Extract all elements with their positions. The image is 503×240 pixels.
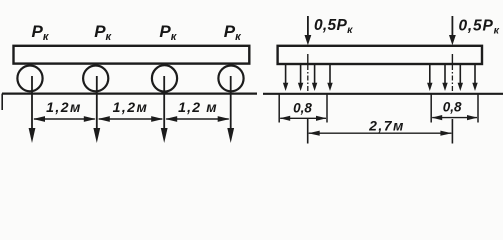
distributed load arrow d5	[429, 65, 431, 85]
svg-text:Pк: Pк	[94, 22, 112, 43]
dimension line 1,2m (first span)	[34, 118, 95, 120]
svg-text:Pк: Pк	[159, 22, 177, 43]
rail line (left)	[2, 92, 257, 94]
svg-text:0,8: 0,8	[443, 100, 462, 115]
distributed load arrow d7	[459, 65, 461, 85]
wheel load arrow A1	[31, 76, 33, 132]
ground line (right)	[263, 93, 503, 95]
svg-text:Pк: Pк	[32, 22, 50, 43]
distributed load arrow d4	[329, 65, 331, 85]
svg-text:0,8: 0,8	[293, 101, 312, 116]
centreline below beam (right group)	[451, 65, 453, 94]
wheel W1	[17, 66, 42, 92]
centre dash inside beam (right load)	[451, 54, 453, 64]
beam (right, with equivalent loads)	[278, 46, 482, 64]
wheel load arrow A3	[163, 76, 165, 132]
load arrow 0,5Pk (right)	[451, 16, 453, 37]
svg-text:1,2м: 1,2м	[113, 99, 149, 115]
extension line e4	[477, 95, 479, 123]
beam (left crane girder)	[14, 46, 250, 64]
extension line e1	[278, 95, 280, 123]
dimension line 2,7m	[309, 132, 452, 134]
svg-text:2,7м: 2,7м	[368, 118, 405, 134]
wheel load arrow A2	[96, 76, 98, 132]
dimension line 1,2m (second span)	[99, 118, 162, 120]
centre dash inside beam (left load)	[307, 54, 309, 64]
dimension line 0,8 (left)	[280, 117, 326, 119]
dimension line 1,2m (third span)	[166, 118, 229, 120]
wheel W3	[152, 65, 177, 91]
dimension line 0,8 (right)	[432, 117, 477, 119]
centreline extension f1	[307, 119, 309, 144]
svg-text:0,5Pк: 0,5Pк	[459, 18, 500, 37]
distributed load arrow d8	[474, 65, 476, 85]
distributed load arrow d1	[285, 65, 287, 85]
svg-text:1,2м: 1,2м	[46, 99, 82, 115]
wheel load arrow A4	[230, 76, 232, 132]
distributed load arrow d6	[444, 65, 446, 85]
load arrow 0,5Pk (left)	[307, 16, 309, 37]
extension line e3	[430, 95, 432, 123]
svg-text:1,2 м: 1,2 м	[178, 99, 218, 115]
svg-text:0,5Pк: 0,5Pк	[314, 17, 353, 36]
rail left end tick	[1, 94, 3, 110]
distributed load arrow d2	[300, 65, 302, 85]
wheel W2	[83, 66, 108, 92]
svg-text:Pк: Pк	[224, 22, 242, 43]
wheel W4	[218, 66, 243, 92]
centreline extension f2	[451, 119, 453, 144]
distributed load arrow d3	[314, 65, 316, 85]
centreline below beam (left group)	[307, 65, 309, 94]
extension line e2	[326, 95, 328, 123]
